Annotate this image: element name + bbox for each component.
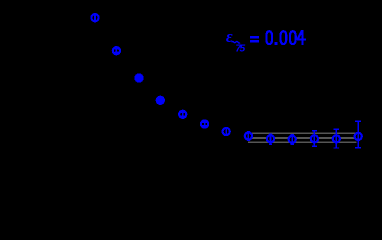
data point 5 — [178, 110, 187, 119]
data point 10 — [288, 134, 297, 145]
data point 13 — [354, 120, 363, 148]
fit band lower edge — [248, 141, 357, 143]
label equals sign — [250, 36, 259, 42]
data point 9 — [266, 133, 275, 145]
data point 6 — [200, 119, 209, 128]
data point 3 — [134, 73, 143, 82]
fit band central line — [248, 137, 357, 139]
data point 7 — [222, 127, 231, 136]
fit band upper edge — [248, 133, 357, 135]
data point 8 — [244, 131, 253, 141]
data point 12 — [332, 129, 341, 149]
label value 0.004 — [265, 30, 306, 45]
data point 11 — [310, 130, 319, 147]
data point 1 — [90, 13, 99, 22]
svg-text:ε: ε — [226, 27, 233, 46]
data point 2 — [112, 46, 121, 55]
data point 4 — [156, 96, 165, 105]
label subscript squiggle (rs) — [232, 41, 241, 43]
